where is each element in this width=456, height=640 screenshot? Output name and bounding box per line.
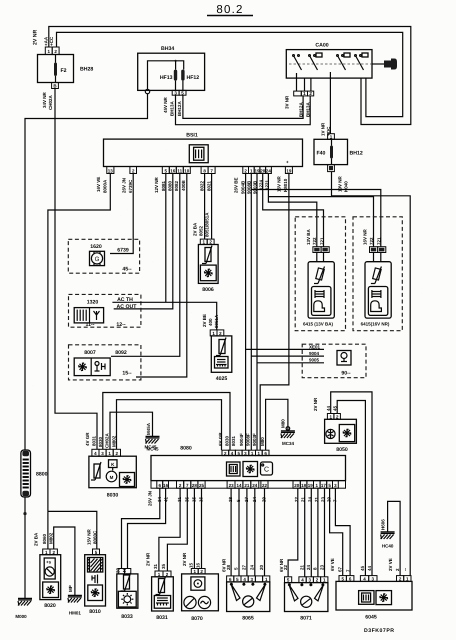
svg-text:8080: 8080 xyxy=(180,446,192,452)
svg-text:28: 28 xyxy=(192,483,198,488)
unit 8007 dashed box xyxy=(69,345,141,380)
wire 8080 cell7 to 8031 pin2 xyxy=(167,488,187,571)
svg-text:19: 19 xyxy=(254,169,260,174)
wire F40 to 6045 pin1 xyxy=(332,172,411,576)
svg-text:2V BA: 2V BA xyxy=(34,532,39,546)
wire 8050 pin1 to 6045 pin3 xyxy=(331,392,372,576)
svg-text:27: 27 xyxy=(242,564,247,570)
svg-text:19: 19 xyxy=(308,483,314,488)
svg-text:3V NR: 3V NR xyxy=(285,95,290,109)
mixer flap motor 8065 xyxy=(222,558,270,622)
wire BSI pin10 to 8007 pin15 stub xyxy=(136,174,187,378)
svg-text:1224: 1224 xyxy=(259,179,264,190)
8080 top pins 2 4 5 3 1 1 6 xyxy=(222,450,269,456)
svg-text:28: 28 xyxy=(226,564,231,570)
svg-text:16V NR: 16V NR xyxy=(277,175,282,192)
ground MC34 xyxy=(286,427,290,431)
wire +CC from F2 pin2 second feed rail xyxy=(57,32,403,116)
wire 8800 to ground M000 xyxy=(24,497,26,598)
svg-text:16V VE: 16V VE xyxy=(96,177,101,192)
svg-text:8082: 8082 xyxy=(174,180,179,191)
svg-text:MC45: MC45 xyxy=(144,445,157,450)
svg-text:M80: M80 xyxy=(281,419,286,428)
svg-text:8065: 8065 xyxy=(242,616,254,622)
pressure switch 8070 xyxy=(182,552,219,622)
svg-text:BH13A: BH13A xyxy=(306,101,311,117)
wire 8030 pin3 to 8080 xyxy=(103,393,230,451)
svg-text:HF13: HF13 xyxy=(160,75,173,81)
svg-text:22: 22 xyxy=(283,564,288,570)
svg-text:17: 17 xyxy=(321,483,327,488)
svg-text:35: 35 xyxy=(161,563,166,569)
ground HC40 xyxy=(381,532,395,539)
svg-text:--: -- xyxy=(403,568,408,571)
svg-text:F2: F2 xyxy=(61,68,67,74)
svg-text:12V NR: 12V NR xyxy=(154,176,159,193)
svg-text:24: 24 xyxy=(266,169,272,174)
wire AC TH line to 4025 xyxy=(112,302,216,330)
svg-text:400B: 400B xyxy=(181,179,186,191)
svg-text:9004: 9004 xyxy=(309,351,320,356)
svg-text:BSI1: BSI1 xyxy=(186,133,198,139)
svg-text:15--: 15-- xyxy=(122,371,131,377)
BSI1 pin 2 xyxy=(130,167,137,174)
wire BH13A to CA00 xyxy=(176,95,311,125)
svg-text:8060C: 8060C xyxy=(92,530,97,544)
svg-text:M802: M802 xyxy=(111,435,116,447)
wire 8080 cell3 to 6045 pin6 xyxy=(335,488,350,575)
svg-text:8030: 8030 xyxy=(225,435,230,446)
svg-text:45: 45 xyxy=(360,565,365,571)
svg-text:722: 722 xyxy=(369,237,374,245)
svg-text:+CC: +CC xyxy=(49,36,54,46)
svg-text:HF12: HF12 xyxy=(187,75,200,81)
svg-text:400: 400 xyxy=(208,318,213,326)
svg-text:9008B: 9008B xyxy=(247,180,252,194)
svg-text:11--: 11-- xyxy=(86,322,95,328)
sensor 6415 (16V NR) dashed box xyxy=(353,217,402,331)
svg-text:23: 23 xyxy=(229,483,235,488)
svg-text:11: 11 xyxy=(177,169,182,174)
svg-text:CH02A: CH02A xyxy=(48,94,53,110)
svg-text:15V NR: 15V NR xyxy=(87,528,92,545)
wire BSI pin8 to 8006 pin1 xyxy=(204,174,206,240)
svg-text:8006: 8006 xyxy=(202,287,214,293)
svg-text:6739C: 6739C xyxy=(128,179,133,193)
svg-text:16V NR: 16V NR xyxy=(363,228,368,245)
svg-text:44: 44 xyxy=(367,565,372,571)
svg-text:2V NR: 2V NR xyxy=(313,397,318,411)
svg-text:6045: 6045 xyxy=(365,615,377,621)
BSI unit BSI1 xyxy=(104,133,303,167)
svg-text:8031: 8031 xyxy=(156,615,168,621)
svg-text:16: 16 xyxy=(196,562,201,568)
svg-text:8051A: 8051A xyxy=(214,314,219,328)
svg-text:D3FK07PR: D3FK07PR xyxy=(364,628,395,634)
wire BSI pin16 to AC OUT stub xyxy=(114,174,173,309)
node dot xyxy=(23,512,26,515)
svg-text:*: * xyxy=(243,583,245,588)
heater 8010 xyxy=(85,528,106,615)
relay box BH34 xyxy=(138,46,205,95)
wire 34V NR CH02A from F2 down to 8030 pin4 xyxy=(55,89,97,450)
svg-text:2V NR: 2V NR xyxy=(33,29,39,45)
svg-text:8050: 8050 xyxy=(336,447,348,453)
svg-text:*: * xyxy=(252,583,254,588)
title 80.2 xyxy=(207,4,253,16)
wire 26V JN 6739C BSI pin2 to 1620 xyxy=(110,174,133,254)
fuse F40 box BH12 xyxy=(314,134,363,172)
svg-text:6739: 6739 xyxy=(117,248,129,254)
svg-text:8010: 8010 xyxy=(89,609,101,615)
svg-text:45V NR: 45V NR xyxy=(163,96,168,113)
svg-text:BH12A: BH12A xyxy=(177,100,182,116)
svg-text:8020: 8020 xyxy=(44,603,56,609)
wire 8050 pin2 to 6045 pin4 xyxy=(337,401,365,576)
wire CA00 to F40 xyxy=(329,78,331,134)
wire 8080 cell16 to 8033 pin2 xyxy=(128,488,166,568)
svg-text:2V BE: 2V BE xyxy=(202,314,207,327)
wire 8080 cell6 to 8033 pin1 xyxy=(122,488,160,568)
wire 6045 pin2 to ground HC40 xyxy=(388,501,401,575)
control unit 8030 xyxy=(85,432,136,499)
svg-text:24: 24 xyxy=(250,564,255,570)
svg-text:HC40: HC40 xyxy=(382,544,394,549)
wire branch to XE01 line2 xyxy=(251,355,324,357)
BSI1 pin 13 xyxy=(107,167,114,174)
svg-text:8031: 8031 xyxy=(92,435,97,446)
BSI1 pin 19 right xyxy=(285,167,292,174)
BSI1 pins 5 16 11 10 xyxy=(162,167,190,174)
svg-text:XE01: XE01 xyxy=(309,344,321,349)
8080 bottom pins row xyxy=(151,481,346,489)
blower control 6045 xyxy=(330,558,412,620)
wire 8030 pin1 to ground MC45 xyxy=(110,412,153,449)
wire 8080 cell28 to 8070 pin1 xyxy=(193,488,195,568)
wires 8080 to 8071 xyxy=(288,488,298,577)
svg-text:6V GR: 6V GR xyxy=(218,432,223,446)
svg-text:+s: +s xyxy=(46,560,52,565)
svg-text:8800: 8800 xyxy=(36,472,48,478)
compressor 8020 xyxy=(40,549,61,609)
wire rail to 8800 from BH34 junction xyxy=(25,94,148,451)
svg-text:13V BA: 13V BA xyxy=(306,228,311,245)
wire 8080 pin6 to ground MC34 xyxy=(266,399,288,450)
svg-text:8080: 8080 xyxy=(167,180,172,191)
svg-text:16: 16 xyxy=(163,483,169,488)
svg-text:10: 10 xyxy=(184,169,190,174)
svg-text:8021: 8021 xyxy=(206,180,211,191)
wire BH12A to CA00 xyxy=(183,95,303,118)
svg-text:1221: 1221 xyxy=(265,179,270,190)
svg-text:20: 20 xyxy=(259,564,264,570)
wire BSI pin5 to AC TH line xyxy=(165,174,167,303)
wire 8080 cell5 to 6045 pin5 xyxy=(330,488,343,575)
svg-text:722: 722 xyxy=(312,237,317,245)
svg-text:4V GR: 4V GR xyxy=(85,432,90,446)
svg-text:8030: 8030 xyxy=(107,493,119,499)
wire 8030 pin2 to 8080 xyxy=(117,400,222,451)
svg-text:C: C xyxy=(264,467,269,474)
svg-text:*: * xyxy=(310,583,312,588)
svg-text:721: 721 xyxy=(319,237,324,245)
unit XE01 dashed box xyxy=(302,344,366,378)
svg-text:M802: M802 xyxy=(49,532,54,544)
svg-text:G: G xyxy=(95,256,100,263)
svg-text:8007: 8007 xyxy=(84,350,96,356)
wire number labels below 8080 row xyxy=(148,491,338,506)
svg-text:24: 24 xyxy=(252,483,258,488)
wire BSI pin19R to 8080 pin1 xyxy=(260,174,289,451)
svg-text:BH12: BH12 xyxy=(350,151,363,157)
svg-text:BH12A: BH12A xyxy=(299,101,304,117)
svg-text:9005: 9005 xyxy=(309,358,320,363)
wire BSI pin24 to sensor1 722 xyxy=(268,174,316,247)
svg-text:BH13A: BH13A xyxy=(170,100,175,116)
wire 8080 cell25 to 8070 pin2 xyxy=(201,488,203,568)
svg-text:721: 721 xyxy=(377,237,382,245)
svg-text:MC34: MC34 xyxy=(282,441,295,446)
BSI1 pins 2 1 19 20 24 xyxy=(243,167,272,174)
wire branch to XE01 line3 xyxy=(257,362,324,364)
svg-text:8022: 8022 xyxy=(200,180,205,191)
svg-text:M: M xyxy=(110,475,114,480)
svg-text:9003B: 9003B xyxy=(253,180,258,194)
wires 8080 to 8065 xyxy=(230,488,232,576)
svg-text:20: 20 xyxy=(260,169,266,174)
svg-text:8092: 8092 xyxy=(115,350,127,356)
svg-text:2V BA: 2V BA xyxy=(193,222,198,236)
svg-text:26V JN: 26V JN xyxy=(122,178,127,193)
sensor 4025 xyxy=(202,314,232,382)
svg-text:25: 25 xyxy=(199,483,205,488)
svg-text:8031: 8031 xyxy=(231,435,236,446)
svg-text:16: 16 xyxy=(170,169,176,174)
svg-text:M80: M80 xyxy=(260,437,265,446)
svg-text:21: 21 xyxy=(300,564,305,570)
svg-text:9008F: 9008F xyxy=(246,433,251,446)
svg-text:80.2: 80.2 xyxy=(216,4,243,16)
svg-text:18: 18 xyxy=(301,483,307,488)
svg-text:9003F: 9003F xyxy=(252,433,257,446)
control panel 8080 xyxy=(144,445,345,481)
wire BSI pin1 to sensor2 721 xyxy=(251,190,380,247)
svg-text:8051/8051A: 8051/8051A xyxy=(204,212,209,237)
svg-text:8070: 8070 xyxy=(191,616,203,622)
svg-text:20: 20 xyxy=(294,483,300,488)
key symbol xyxy=(372,59,397,70)
wire 9004B BSI to 8080 xyxy=(245,174,247,451)
wire BSI pin7 to 8006 pin2 xyxy=(211,174,213,240)
sensor 6415 (13V BA) dashed box xyxy=(295,217,345,331)
svg-text:6415 (13V BA): 6415 (13V BA) xyxy=(303,322,334,327)
wire rail B split to 8020 and 8010 xyxy=(48,511,97,549)
svg-text:19: 19 xyxy=(286,169,292,174)
ground HM01 xyxy=(68,596,82,603)
svg-text:+: + xyxy=(286,160,289,165)
svg-text:F40: F40 xyxy=(317,151,326,157)
svg-text:8030: 8030 xyxy=(98,436,103,447)
wire branch to XE01 line1 xyxy=(246,348,324,350)
resistor pack 8800 on left rail xyxy=(21,450,48,497)
svg-text:26V BE: 26V BE xyxy=(234,177,239,193)
wire BSI pin11 to 8092 stub xyxy=(111,174,180,357)
svg-text:8060: 8060 xyxy=(42,533,47,544)
svg-text:1620: 1620 xyxy=(90,244,102,250)
svg-text:CA00: CA00 xyxy=(315,43,328,49)
svg-text:CH02A: CH02A xyxy=(105,432,110,448)
wire 9008B BSI to 8080 xyxy=(250,174,252,451)
svg-text:8071: 8071 xyxy=(300,616,312,622)
svg-text:8033: 8033 xyxy=(121,614,133,620)
ground M000 xyxy=(18,599,32,606)
svg-text:15: 15 xyxy=(189,562,194,568)
ground MC45 xyxy=(146,437,160,444)
svg-text:1320: 1320 xyxy=(87,300,99,306)
wire BSI pin24 to sensor2 722 xyxy=(268,197,373,247)
svg-text:9004B: 9004B xyxy=(241,180,246,194)
unit 1320 dashed box xyxy=(69,294,141,328)
node junction circle BH34 xyxy=(145,89,149,93)
svg-text:AC OUT: AC OUT xyxy=(117,304,138,310)
svg-text:+AA: +AA xyxy=(44,36,49,46)
unit 1620 dashed box xyxy=(68,239,139,273)
wire 8080 cell2 to 8031 pin1 xyxy=(159,488,180,571)
sensor 8006 xyxy=(193,212,219,293)
ignition switch CA00 xyxy=(286,43,384,79)
svg-text:67: 67 xyxy=(338,566,343,572)
svg-text:H606: H606 xyxy=(380,519,385,530)
svg-text:8052: 8052 xyxy=(199,225,204,236)
svg-text:8081: 8081 xyxy=(161,180,166,191)
svg-text:1V NR: 1V NR xyxy=(321,122,326,136)
svg-text:M000: M000 xyxy=(15,614,27,619)
wire 9003B BSI to 8080 xyxy=(256,174,258,451)
svg-text:8000A: 8000A xyxy=(103,179,108,193)
wire +AA from F2 pin1 top feed rail xyxy=(49,27,411,125)
svg-text:MP: MP xyxy=(68,585,73,592)
svg-text:2V NR: 2V NR xyxy=(146,552,151,566)
svg-text:24: 24 xyxy=(306,564,311,570)
svg-text:6V VE: 6V VE xyxy=(330,558,335,571)
wire 8020 pin2 to ground HM01 xyxy=(54,527,75,595)
svg-text:HM01: HM01 xyxy=(69,611,82,616)
distribution flap motor 8071 xyxy=(279,558,328,622)
svg-text:6415(16V NR): 6415(16V NR) xyxy=(361,322,390,327)
svg-text:12--: 12-- xyxy=(116,322,125,328)
svg-text:2V NR: 2V NR xyxy=(182,552,187,566)
svg-text:BH34: BH34 xyxy=(161,46,174,52)
svg-text:K040: K040 xyxy=(344,181,349,192)
svg-text:45--: 45-- xyxy=(122,267,131,273)
svg-text:9004F: 9004F xyxy=(239,433,244,446)
connector CA00 bottom xyxy=(294,78,314,96)
svg-text:26V JN: 26V JN xyxy=(148,491,153,506)
svg-text:*: * xyxy=(301,583,303,588)
wire 16V VE 8000A BSI pin13 to left rail B xyxy=(48,174,110,512)
blower unit 8050 xyxy=(313,397,356,453)
wire BSI pin20 to sensor1 721 xyxy=(263,174,324,247)
svg-text:2V VE: 2V VE xyxy=(388,558,393,571)
fuse F2 box BH28 xyxy=(38,47,74,89)
svg-text:4025: 4025 xyxy=(216,376,228,382)
svg-text:14: 14 xyxy=(236,483,242,488)
svg-text:22: 22 xyxy=(262,483,268,488)
svg-text:21: 21 xyxy=(244,483,250,488)
svg-text:31: 31 xyxy=(153,563,158,569)
svg-text:34V NR: 34V NR xyxy=(42,91,47,108)
BSI1 pins 8 7 xyxy=(201,167,215,174)
svg-text:BH28: BH28 xyxy=(80,67,93,73)
svg-text:13: 13 xyxy=(108,169,114,174)
sunlight sensor 8033 xyxy=(116,567,138,620)
evaporator sensor 8031 xyxy=(146,552,174,621)
svg-text:23: 23 xyxy=(319,564,324,570)
svg-text:M45A: M45A xyxy=(146,422,151,435)
svg-text:90--: 90-- xyxy=(341,371,350,377)
svg-text:K8010: K8010 xyxy=(283,178,288,192)
